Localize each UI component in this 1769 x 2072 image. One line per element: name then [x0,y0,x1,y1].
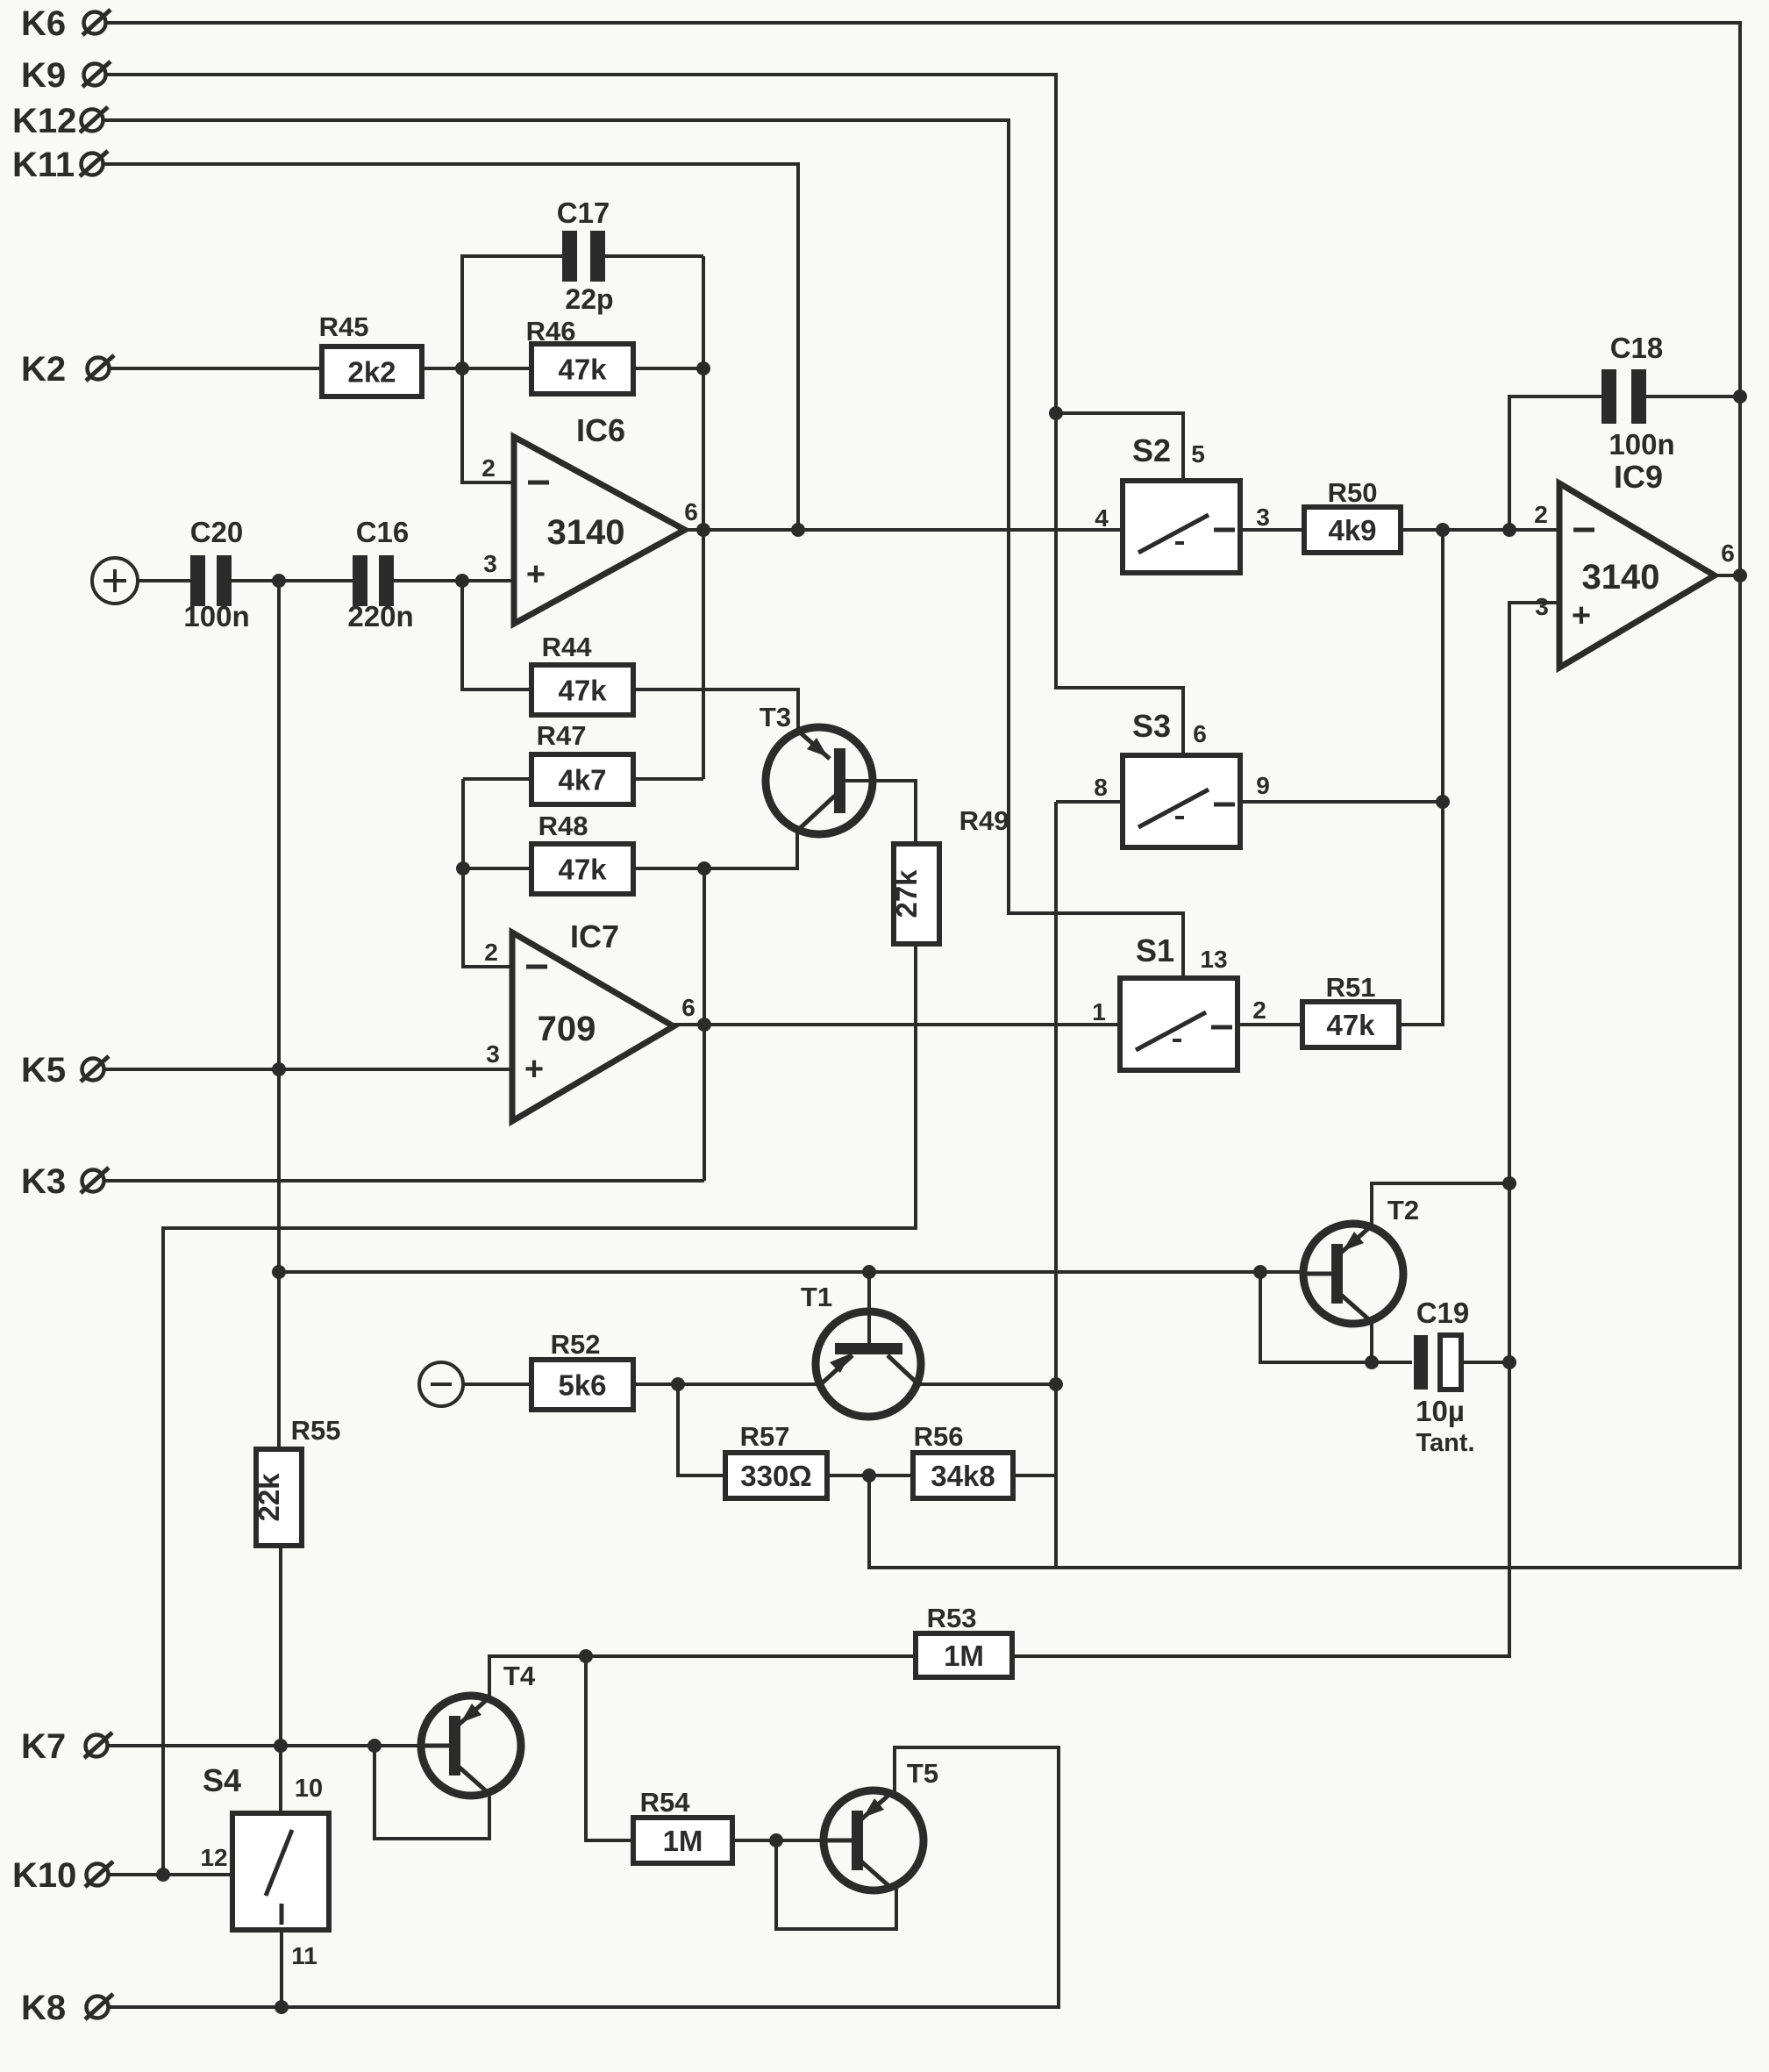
transistor T5 [824,1758,938,1890]
junction node IC9 out [1733,568,1747,582]
op-amp IC7 [484,918,695,1121]
svg-text:K6: K6 [21,4,66,43]
resistor R47 [531,720,633,804]
switch S4 [200,1762,329,1969]
svg-text:2k2: 2k2 [347,356,396,389]
svg-text:34k8: 34k8 [931,1460,995,1492]
junction node T4 loop [367,1739,382,1753]
junction node T2 emitter / C19 [1365,1355,1379,1369]
wire K11 net: K11 right and down to IC6 output node [102,164,798,530]
svg-text:R54: R54 [640,1787,691,1818]
wire R52 node down to R57 [678,1384,725,1475]
wire S4 pin11 to K8 line [280,1930,283,2007]
wire C19 right to IC9 pin3 rail [1463,1361,1509,1364]
wire R49 bottom long run to K10 node [163,944,916,1875]
input terminal minus [419,1362,463,1406]
wire IC6 pin3 node down to R44 left [462,581,531,689]
wire S2 pin5 branch [1056,413,1183,481]
junction node S3 pin9 join [1436,795,1450,809]
svg-text:5: 5 [1191,440,1205,468]
capacitor C18 [1601,332,1675,461]
wire S2 pin3 to R50 [1240,528,1304,532]
junction node R48 left [456,861,470,875]
junction node C16 / IC6 pin3 [455,574,469,588]
svg-text:K7: K7 [21,1727,66,1766]
wire R48 left [463,867,531,870]
svg-text:22k: 22k [253,1473,285,1522]
svg-text:S1: S1 [1136,932,1174,968]
svg-text:S2: S2 [1132,432,1171,468]
wire R47 left to lower left rail [463,777,531,781]
terminal K2 [21,350,114,389]
svg-text:709: 709 [538,1010,596,1048]
junction node R46/C17 right [696,361,710,375]
wire T3 base to R49 top [845,781,916,844]
svg-text:22p: 22p [565,283,613,315]
svg-text:R44: R44 [542,632,593,662]
svg-text:R57: R57 [740,1421,790,1452]
transistor T3 [760,702,873,834]
svg-text:2: 2 [484,939,498,966]
transistor T2 [1303,1195,1419,1324]
resistor R50 [1304,477,1401,553]
wire C18 left branch to IC9 pin2 node [1509,397,1601,530]
junction node IC6 out / feedback rail [696,523,710,537]
svg-text:9: 9 [1256,772,1270,799]
svg-text:12: 12 [200,1844,227,1871]
wire C17 right branch [605,254,703,258]
wire IC7 output to S1 pin 1 [674,1023,1120,1026]
svg-text:R52: R52 [551,1329,601,1360]
wire C18 right branch [1646,395,1740,398]
wire x=1204 rail: S3 pin8 down to bottom rail [1054,802,1058,1568]
wire K9 net: K9 right, down to S3 pin6 branch [104,75,1183,755]
junction node K10 tap [156,1868,170,1882]
junction node R54 out / T5 loop [769,1833,783,1847]
svg-text:C17: C17 [557,196,610,229]
terminal K6 [21,4,111,43]
resistor R54 [633,1787,732,1863]
resistor R56 [913,1421,1013,1498]
junction node R52 out [671,1377,685,1391]
svg-text:IC6: IC6 [576,412,625,448]
svg-text:C19: C19 [1416,1297,1470,1329]
wire R50 to IC9 pin2 [1401,528,1559,532]
switch S1 [1092,932,1266,1070]
junction node T2 collector rail [1502,1176,1516,1190]
wire K5 line to IC7 pin3 [103,1068,512,1071]
terminal K12 [12,102,108,140]
junction node R45/R46/C17 [455,361,469,375]
svg-text:Tant.: Tant. [1416,1429,1474,1457]
svg-text:+: + [524,1051,544,1088]
svg-text:T2: T2 [1387,1195,1419,1225]
wire K10 to S4 pin 12 [108,1873,233,1876]
svg-text:R47: R47 [537,720,587,751]
resistor R49 [890,805,1009,944]
junction node S4 pin11 on K8 [275,2000,289,2014]
junction node R48 right / T3 emitter [697,861,711,875]
svg-text:K3: K3 [21,1162,66,1201]
junction node T1 / x1204 rail [1049,1377,1063,1391]
svg-text:3140: 3140 [1582,558,1660,597]
wire R48 right to T3 emitter node [633,867,704,870]
svg-text:C20: C20 [190,516,244,548]
wire x=318 rail: C20/C16 node down to R55 top [277,581,281,1449]
wire K2 to R45 [109,367,322,370]
wire S3 pin9 to R50 node rail [1240,800,1443,804]
resistor R51 [1302,972,1399,1047]
svg-text:R53: R53 [927,1603,977,1633]
svg-text:330Ω: 330Ω [740,1460,812,1492]
wire T2 base rail from x=318 node [279,1270,1303,1274]
svg-text:1M: 1M [944,1640,984,1672]
wire C17 left branch [462,256,562,368]
wire R53 node down to R54 [586,1656,633,1840]
svg-text:K5: K5 [21,1051,66,1090]
wire T5 base-emitter loop [776,1840,896,1929]
svg-text:+: + [1572,597,1591,634]
svg-text:S3: S3 [1132,708,1171,744]
wire R44 right to T3 collector [633,689,798,729]
wire K3 line [103,1179,704,1182]
junction node S2 pin5 tap [1049,406,1063,420]
svg-text:C18: C18 [1610,332,1664,364]
svg-text:IC7: IC7 [570,918,619,954]
capacitor C16 [347,516,413,632]
svg-text:47k: 47k [558,354,607,386]
wire IC6 pin2 branch [462,368,514,482]
wire feedback rail x=802 (C17/R46 to IC6 out to R47) [702,256,705,779]
svg-text:6: 6 [1721,539,1735,567]
svg-text:K10: K10 [12,1856,76,1895]
wire x=318 rail: R55 bottom through K7 to S4 pin 10 [279,1545,282,1813]
junction node IC7 out [697,1018,711,1032]
svg-text:220n: 220n [347,600,413,632]
wire C20 to C16 [232,579,353,582]
svg-text:S4: S4 [203,1762,241,1798]
svg-text:3140: 3140 [547,513,625,552]
resistor R44 [531,632,633,715]
wire T2 collector up to IC9 pin3 rail [1372,1183,1509,1225]
wire IC6 output row to S2 pin 4 [685,528,1123,532]
junction node IC9 pin2 / C18 [1502,523,1516,537]
wire R57 to R56 [827,1474,913,1477]
svg-text:+: + [526,556,546,593]
svg-text:K12: K12 [12,102,76,140]
terminal K9 [21,56,111,95]
switch S3 [1094,708,1270,847]
svg-text:6: 6 [681,994,695,1021]
svg-text:10µ: 10µ [1416,1395,1465,1427]
svg-text:11: 11 [291,1942,317,1969]
svg-text:27k: 27k [890,869,923,918]
junction node C20-C16 [272,574,286,588]
capacitor C19 (polarized tantalum) [1414,1297,1475,1457]
svg-text:47k: 47k [1326,1009,1375,1041]
wire R52 to T1 [633,1383,820,1386]
junction node T2 loop [1253,1265,1267,1279]
wire T1 top branch [867,1272,871,1344]
wire R46 right to feedback rail [633,367,703,370]
svg-text:6: 6 [1193,720,1207,747]
wire left rail x=528: R47 to R48 to IC7 pin2 [463,779,512,967]
wire K8 line up to T5 collector [108,1747,1059,2007]
wire T4 base-emitter loop [374,1746,489,1839]
junction node R53/T4/R54 [579,1649,593,1663]
resistor R46 [526,316,633,394]
transistor T1 [801,1282,921,1417]
svg-text:K8: K8 [21,1989,66,2027]
svg-text:K9: K9 [21,56,66,95]
junction node R55/S4 on K7 [274,1739,288,1753]
svg-text:T1: T1 [801,1282,832,1312]
svg-text:47k: 47k [558,854,607,886]
svg-text:R48: R48 [539,811,588,841]
svg-text:R45: R45 [319,311,369,342]
wire T2 base-collector loop to C19 [1260,1272,1412,1362]
transistor T4 [421,1661,536,1796]
svg-text:4: 4 [1095,504,1109,532]
terminal K3 [21,1162,109,1201]
svg-text:100n: 100n [1609,428,1674,461]
svg-text:8: 8 [1094,774,1108,801]
junction node C18 right [1733,389,1747,404]
wire R53 left rail to T4 top [489,1656,916,1698]
switch S2 [1095,432,1270,573]
svg-text:1M: 1M [663,1825,703,1857]
wire IC9 pin3 down and across to R53 right [1012,603,1559,1656]
resistor R52 [531,1329,633,1410]
junction node K5 tap [272,1062,286,1076]
svg-text:2: 2 [1534,501,1548,528]
capacitor C17 [557,196,614,315]
svg-text:C16: C16 [356,516,410,548]
svg-text:K2: K2 [21,350,66,389]
svg-text:R55: R55 [291,1415,341,1446]
svg-text:4k9: 4k9 [1328,514,1376,547]
svg-text:2: 2 [1252,997,1266,1024]
terminal K8 [21,1989,113,2027]
wire K6 net: K6 to right edge, down, bottom rail to R56/R57 node [104,23,1740,1568]
input terminal plus [92,558,138,604]
terminal K7 [21,1727,112,1766]
wire T3 emitter to R48 node [704,832,797,868]
wire IC9 output to K6 rail [1715,574,1740,577]
wire R45 to R46 node [422,367,531,370]
svg-text:4k7: 4k7 [558,764,606,797]
svg-text:R56: R56 [914,1421,964,1452]
junction node R50 out [1436,523,1450,537]
wire R54 right to T5 base [732,1839,824,1842]
svg-text:1: 1 [1092,998,1106,1025]
svg-text:47k: 47k [558,675,607,707]
resistor R55 [253,1415,340,1546]
svg-text:6: 6 [684,498,698,525]
op-amp IC6 [481,412,698,624]
wire R57/R56 node down to bottom rail [867,1475,871,1568]
svg-text:100n: 100n [183,600,249,632]
resistor R45 [319,311,422,397]
junction node IC6 out / K11 [791,523,805,537]
wire S1 pin2 to R51 [1239,1023,1302,1026]
svg-text:5k6: 5k6 [558,1369,606,1402]
svg-text:3: 3 [1256,504,1270,531]
svg-text:T4: T4 [503,1661,536,1691]
wire R56 right to x=1204 rail [1012,1474,1056,1477]
svg-text:T3: T3 [760,702,791,732]
svg-text:2: 2 [481,454,496,482]
capacitor C20 [183,516,249,632]
svg-text:13: 13 [1200,946,1227,973]
wire K12 net: K12 right, down, over to S1 pin 13 [102,120,1183,978]
terminal K11 [12,146,108,184]
svg-text:R49: R49 [959,805,1009,836]
svg-text:3: 3 [486,1040,500,1068]
wire rail x=1645: R50 node down to R51 right [1401,530,1443,1025]
svg-text:IC9: IC9 [1614,459,1663,495]
resistor R57 [725,1421,827,1498]
junction node R57/R56 [862,1468,876,1483]
junction node T1 top [862,1265,876,1279]
wire T2 emitter down [1370,1323,1373,1362]
svg-text:3: 3 [1535,593,1549,620]
wire C16 to IC6 pin3 [394,579,514,582]
svg-text:R51: R51 [1326,972,1376,1003]
svg-text:10: 10 [295,1775,323,1803]
resistor R53 [916,1603,1012,1677]
wire minus-terminal to R52 [463,1383,531,1386]
svg-text:R46: R46 [526,316,576,347]
wire S3 pin8 stub [1056,800,1123,804]
resistor R48 [531,811,633,894]
svg-text:3: 3 [483,550,497,577]
wire x=803 rail: R48 node down to IC7 output and K3 [703,868,706,1181]
wire plus-input terminal to C20 [138,579,190,582]
junction node rail start x=318 [272,1265,286,1279]
wire K7 line to T4 base [107,1744,421,1747]
svg-text:R50: R50 [1328,477,1378,508]
svg-text:T5: T5 [907,1758,938,1789]
wire R47 right to feedback rail [633,777,703,781]
terminal K10 [12,1856,113,1895]
svg-text:K11: K11 [12,146,75,184]
wire T1 right to x=1204 rail [917,1383,1056,1386]
op-amp IC9 [1534,459,1735,668]
terminal K5 [21,1051,109,1090]
junction node C19 right [1502,1355,1516,1369]
